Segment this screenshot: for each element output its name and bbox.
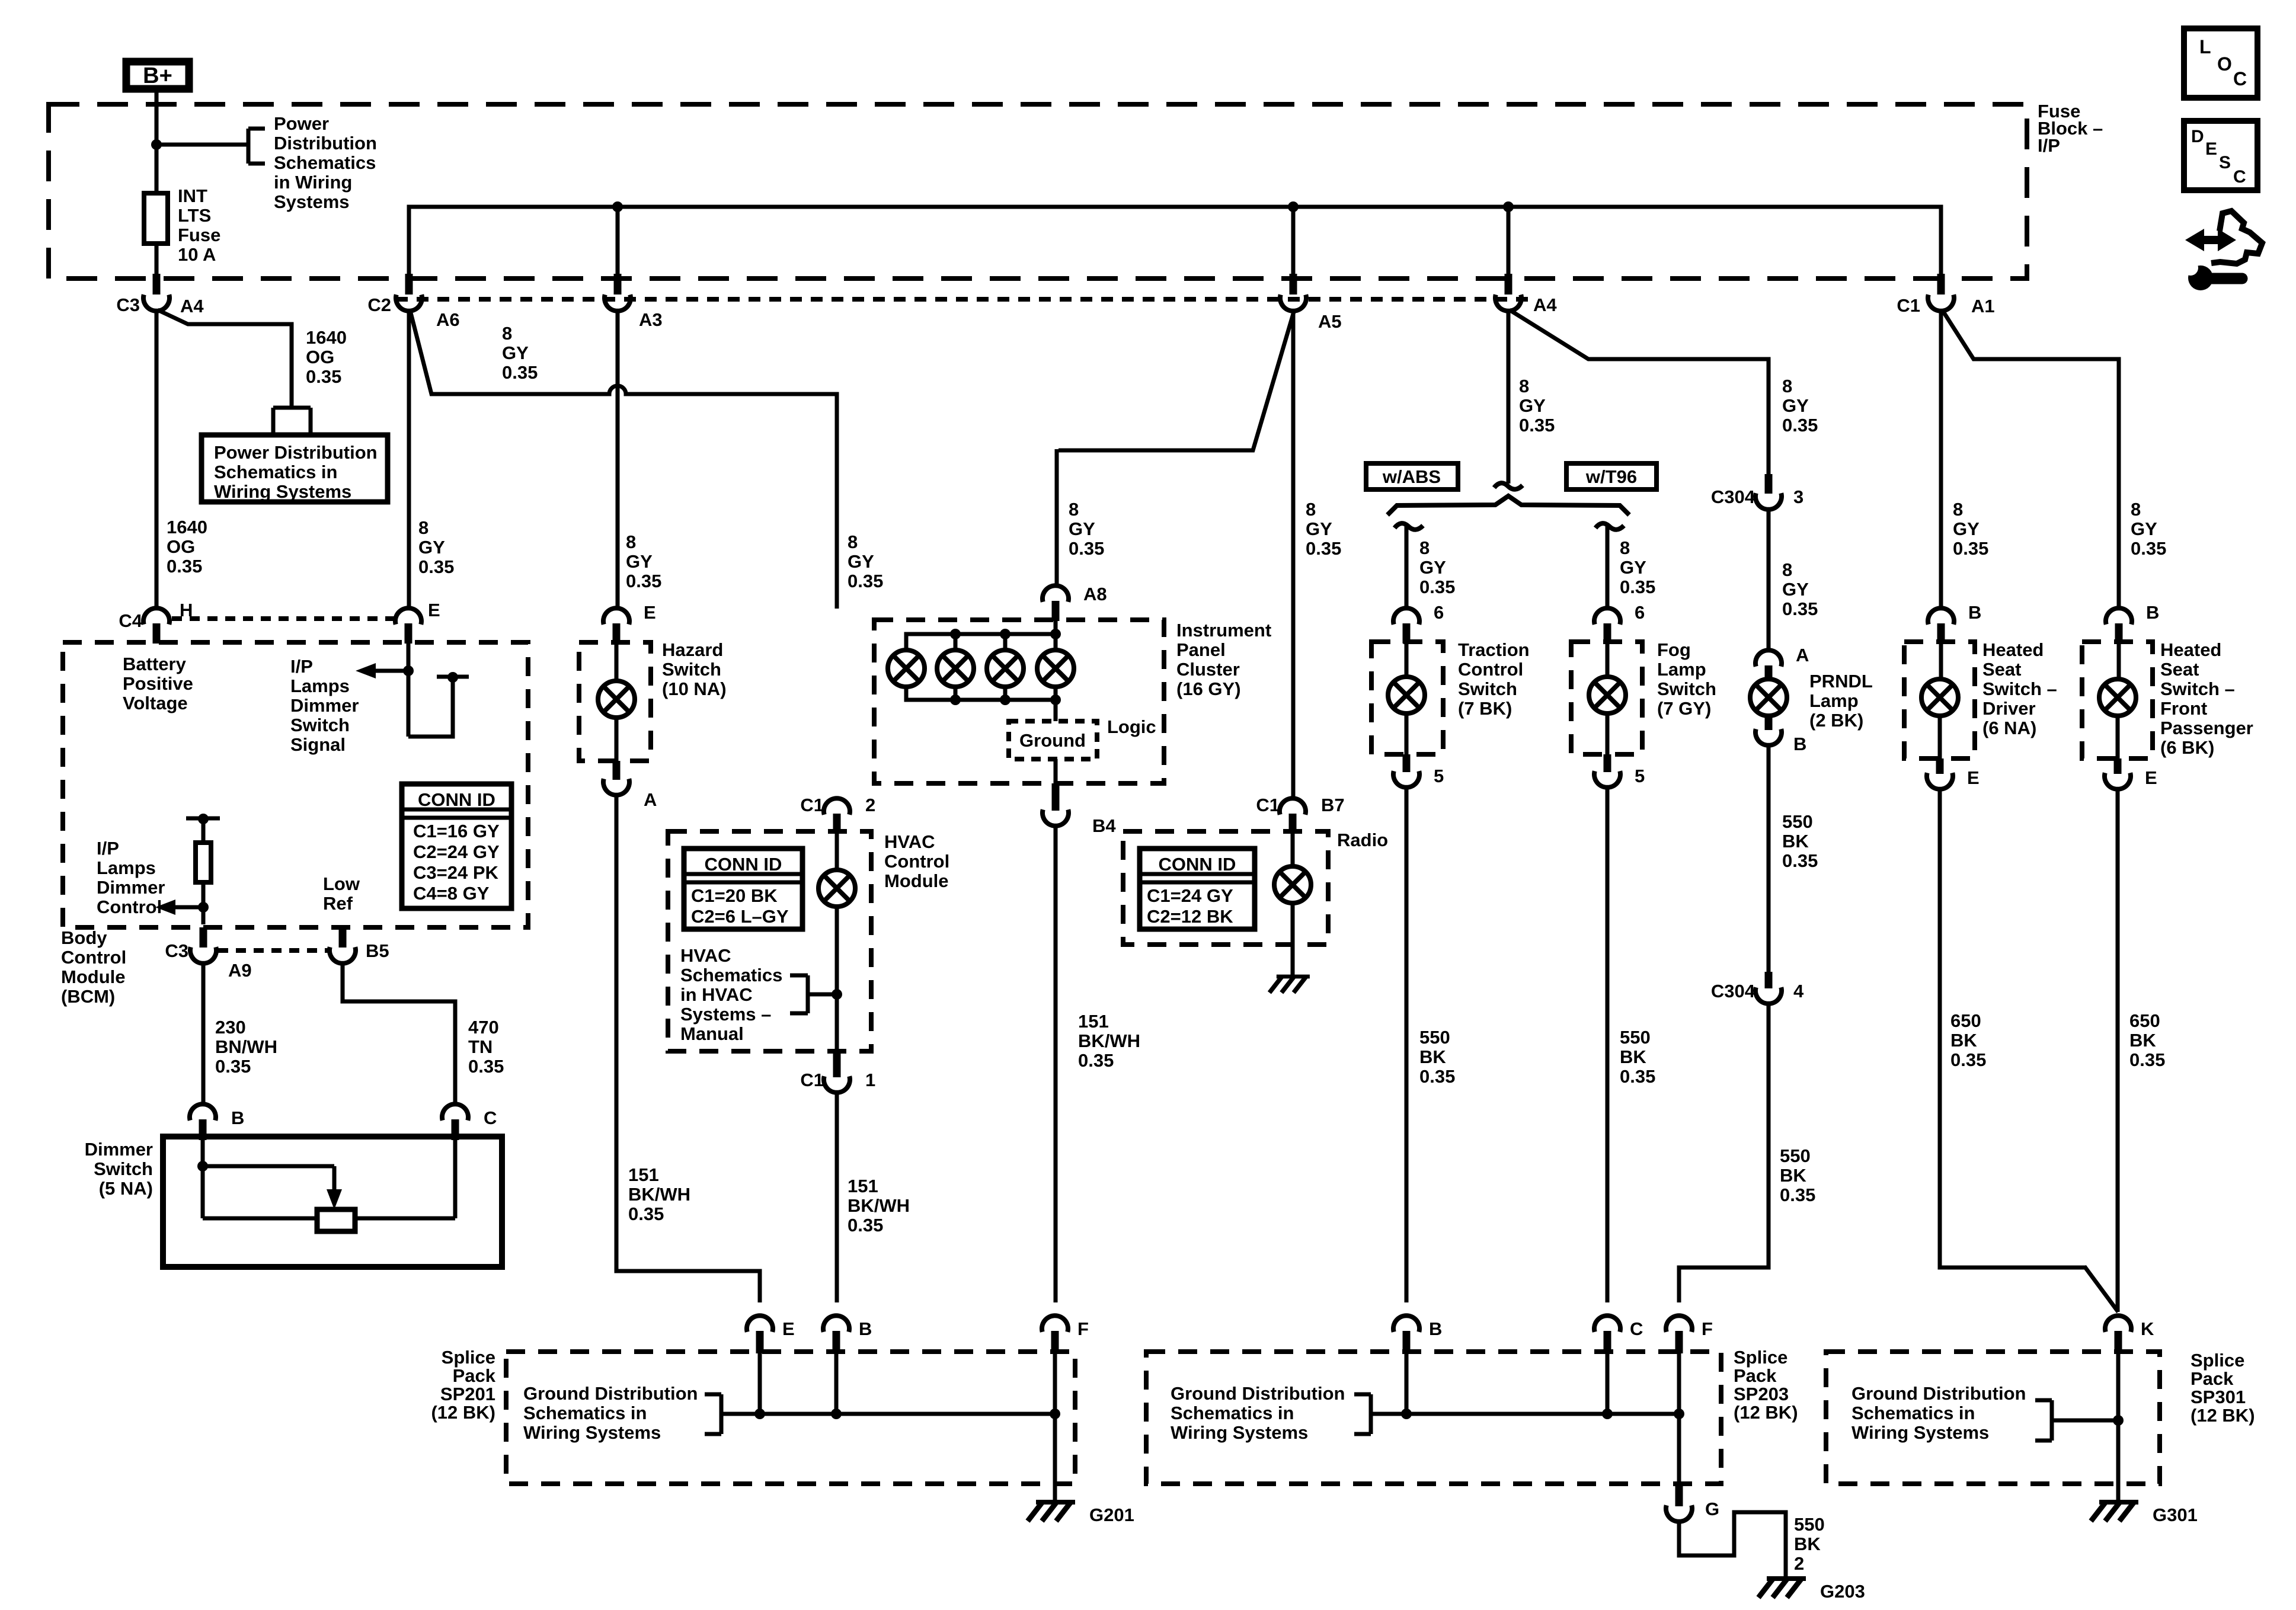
svg-text:B5: B5 [366,940,389,961]
wire A3 to hazard E (8 GY) [616,309,620,609]
svg-text:G201: G201 [1089,1505,1134,1525]
svg-text:OG: OG [306,347,334,367]
svg-text:0.35: 0.35 [626,571,661,591]
svg-text:6: 6 [1635,602,1645,623]
svg-text:BK: BK [1780,1165,1806,1186]
svg-text:Power: Power [274,113,329,134]
svg-text:Splice: Splice [442,1347,495,1368]
svg-text:(12 BK): (12 BK) [1734,1402,1798,1423]
svg-text:A6: A6 [436,309,460,330]
label 151 BK/WH 0.35 (HVAC) [848,1176,910,1235]
ground G203 [1758,1579,1865,1602]
svg-text:B: B [1968,602,1981,623]
label Ground Distribution Schematics in Wiring Systems (SP301) [1851,1383,2026,1443]
svg-text:0.35: 0.35 [1782,415,1818,436]
dimmer internal resistor path [203,1140,455,1231]
svg-text:8: 8 [2131,499,2141,520]
label 650 BK 0.35 (driver) [1950,1010,1986,1070]
svg-text:E: E [428,600,440,620]
svg-text:BK/WH: BK/WH [1078,1030,1140,1051]
wire fuse to C3 connector [155,244,159,277]
wire A4 branch to power distribution box [158,310,292,408]
svg-text:8: 8 [1519,376,1529,396]
svg-text:0.35: 0.35 [2129,1049,2165,1070]
label 8 GY 0.35 (A6 wire) [502,323,538,383]
label Heated Seat Switch Driver (6 NA) [1982,639,2057,738]
svg-text:HVAC: HVAC [680,945,731,966]
svg-text:Dimmer: Dimmer [290,695,359,716]
BCM internal wire from E [408,644,469,737]
battery feed B+ box [126,62,189,89]
svg-text:C304: C304 [1711,981,1755,1001]
svg-text:I/P: I/P [97,838,119,859]
svg-text:(7 GY): (7 GY) [1657,698,1711,719]
label 8 GY 0.35 (A4 wire) [1519,376,1555,436]
service icon wrench [2183,260,2242,290]
svg-text:Cluster: Cluster [1176,659,1240,680]
svg-text:Splice: Splice [2191,1350,2244,1371]
svg-text:0.35: 0.35 [1780,1185,1815,1205]
heated seat switch passenger dashed box [2082,642,2153,758]
svg-text:550: 550 [1780,1145,1811,1166]
svg-text:Ref: Ref [323,893,353,914]
svg-text:Lamp: Lamp [1657,659,1706,680]
svg-text:C304: C304 [1711,486,1755,507]
svg-text:(5 NA): (5 NA) [99,1178,153,1199]
label Battery Positive Voltage [123,654,193,713]
connector E (passenger seat) [2105,758,2157,789]
label Splice Pack SP201 (12 BK) [431,1347,495,1423]
wire bus to A5 [1291,207,1296,277]
svg-text:Fog: Fog [1657,639,1691,660]
svg-text:Heated: Heated [1982,639,2044,660]
svg-text:PRNDL: PRNDL [1809,671,1873,692]
svg-text:GY: GY [1620,557,1646,578]
svg-text:A1: A1 [1971,296,1995,316]
svg-text:0.35: 0.35 [1620,577,1655,597]
svg-text:C1: C1 [800,795,824,815]
IPC illumination lamp 2 [937,650,974,687]
svg-text:0.35: 0.35 [1519,415,1555,436]
connector C304/4 [1711,972,1804,1004]
svg-text:Wiring Systems: Wiring Systems [1171,1422,1308,1443]
wire B+ to fuse [151,89,162,193]
svg-text:Control: Control [1458,659,1523,680]
wire A1 to passenger B (8 GY) [1942,310,2119,609]
svg-text:8: 8 [1782,376,1792,396]
svg-text:0.35: 0.35 [468,1056,504,1077]
svg-text:0.35: 0.35 [1950,1049,1986,1070]
svg-text:Systems –: Systems – [680,1004,771,1025]
label Radio [1337,830,1388,850]
svg-text:1: 1 [865,1070,875,1090]
label Ground Distribution Schematics in Wiring Systems (SP203) [1171,1383,1345,1443]
wire SP201 F to G201 [1053,1353,1057,1502]
connector C1/A1 [1897,274,1994,316]
svg-text:E: E [782,1318,795,1339]
label 8 GY 0.35 (passenger) [2131,499,2166,559]
connector C3/A4 [116,274,204,316]
HVAC control module dashed box [668,831,871,1051]
IPC lamp bus top [906,620,1061,650]
connector K (SP301) [2105,1315,2154,1353]
svg-text:8: 8 [1306,499,1316,520]
svg-text:Switch: Switch [290,715,350,735]
svg-text:G: G [1705,1499,1719,1519]
wire HVAC C1/1 to SP201 B (151 BK/WH) [835,1090,839,1302]
svg-text:(6 NA): (6 NA) [1982,718,2036,738]
svg-text:F: F [1702,1318,1713,1339]
label Traction Control Switch (7 BK) [1458,639,1530,719]
svg-text:(10 NA): (10 NA) [662,678,727,699]
svg-text:Heated: Heated [2160,639,2221,660]
svg-text:B: B [231,1108,244,1128]
svg-text:8: 8 [1782,559,1792,580]
connector 6 (fog) [1594,602,1645,644]
svg-text:w/T96: w/T96 [1585,466,1637,487]
svg-text:SP203: SP203 [1734,1384,1789,1404]
wire bus to A4 [1507,207,1511,277]
svg-text:C3: C3 [165,940,188,961]
svg-text:in HVAC: in HVAC [680,984,753,1005]
svg-text:0.35: 0.35 [1419,577,1455,597]
label 8 GY 0.35 (C2-E wire) [418,517,454,577]
svg-text:Control: Control [61,947,126,968]
svg-text:Ground Distribution: Ground Distribution [523,1383,698,1404]
svg-text:0.35: 0.35 [848,571,883,591]
svg-text:C1=20 BK: C1=20 BK [691,885,778,906]
radio ground [1269,977,1310,993]
label I/P Lamps Dimmer Control [97,838,165,917]
SP301 bracket [2035,1400,2124,1441]
driver seat lamp [1921,644,1958,758]
svg-text:Systems: Systems [274,191,350,212]
svg-text:2: 2 [865,795,875,815]
svg-text:Driver: Driver [1982,698,2036,719]
label 8 GY 0.35 (ABS branch) [1419,537,1455,597]
radio lamp [1274,834,1311,975]
wire A4 stub with break tilde [1494,309,1523,489]
label Fog Lamp Switch (7 GY) [1657,639,1716,719]
svg-text:Seat: Seat [2160,659,2199,680]
label 1640 OG 0.35 (lower) [167,517,207,577]
arrow I/P lamps dimmer switch signal [356,663,414,678]
svg-text:GY: GY [1782,395,1809,416]
svg-text:Battery: Battery [123,654,187,674]
label Splice Pack SP203 (12 BK) [1734,1347,1798,1423]
svg-text:0.35: 0.35 [1953,538,1988,559]
svg-text:(12 BK): (12 BK) [2191,1405,2255,1426]
wire PRNDL B to C304-4 (550 BK) [1767,743,1771,972]
svg-text:Fuse: Fuse [178,225,220,245]
connector G (SP203) [1666,1499,1719,1522]
resistor I/P lamps dimmer control [186,814,220,924]
label 8 GY 0.35 (A3 wire) [626,532,661,591]
service icon outline [2211,211,2262,264]
fog lamp switch dashed box [1571,642,1642,754]
svg-text:SP201: SP201 [440,1384,495,1404]
svg-text:Schematics in: Schematics in [523,1403,647,1423]
svg-text:8: 8 [1069,499,1079,520]
svg-text:10 A: 10 A [178,244,216,265]
svg-text:Module: Module [61,966,126,987]
svg-text:C: C [2233,167,2246,187]
svg-text:C1: C1 [1897,295,1920,316]
connector F (SP201) [1042,1315,1089,1353]
svg-text:C2=12 BK: C2=12 BK [1147,906,1233,927]
label INT LTS Fuse 10 A [178,185,220,265]
wire fog to SP203 C (550 BK) [1606,785,1610,1302]
svg-text:Ground Distribution: Ground Distribution [1171,1383,1345,1404]
svg-text:0.35: 0.35 [2131,538,2166,559]
svg-text:Schematics in: Schematics in [1171,1403,1294,1423]
fuse block connector strip dashed line [396,297,1535,302]
wire C3 to C4 (1640 OG) [155,309,159,609]
label Dimmer Switch (5 NA) [85,1139,153,1199]
connector E (SP201) [747,1315,795,1353]
svg-text:151: 151 [1078,1011,1109,1032]
svg-text:Seat: Seat [1982,659,2021,680]
svg-text:A4: A4 [1533,295,1557,315]
svg-text:Control: Control [97,897,162,917]
svg-text:C2: C2 [367,295,391,315]
svg-text:1640: 1640 [306,327,347,348]
svg-text:1640: 1640 [167,517,207,537]
wire driver E to SP301 K (650 BK) [1940,787,2118,1312]
connector C1/B7 (radio) [1256,795,1344,834]
label Instrument Panel Cluster (16 GY) [1176,620,1271,699]
HVAC schematics bracket [790,975,842,1013]
svg-text:I/P: I/P [2038,135,2060,156]
svg-text:8: 8 [1620,537,1630,558]
SP201 ground bus [721,1353,1060,1419]
svg-text:Wiring Systems: Wiring Systems [1851,1422,1989,1443]
wire SP203 F to G connector [1677,1353,1681,1506]
dimmer internal wiper wire [197,1161,342,1209]
svg-text:5: 5 [1434,766,1444,786]
svg-text:E: E [2145,767,2157,788]
svg-text:G203: G203 [1820,1581,1865,1602]
connector C4/H [119,600,193,644]
svg-text:0.35: 0.35 [1306,538,1341,559]
label 8 GY 0.35 (PRNDL) [1782,559,1818,619]
svg-text:S: S [2219,153,2231,172]
HVAC conn id table [684,849,802,929]
svg-text:LTS: LTS [178,205,211,226]
svg-text:Switch: Switch [94,1158,153,1179]
splice pack SP301 dashed box [1826,1352,2160,1484]
svg-text:Schematics in: Schematics in [1851,1403,1975,1423]
svg-text:C2=6 L–GY: C2=6 L–GY [691,906,789,927]
label I/P Lamps Dimmer Switch Signal [290,656,359,755]
connector A5 [1280,274,1342,332]
svg-text:0.35: 0.35 [215,1056,251,1077]
svg-text:Pack: Pack [2191,1368,2234,1389]
svg-text:E: E [2205,139,2217,159]
svg-text:Lamps: Lamps [97,857,156,878]
label 1640 OG 0.35 (upper) [306,327,347,387]
wire C1/A1 to driver B (8 GY) [1939,309,1943,609]
connector C (dimmer) [442,1104,497,1140]
svg-text:I/P: I/P [290,656,313,677]
svg-text:A9: A9 [228,960,252,981]
svg-text:Module: Module [884,870,949,891]
svg-text:Switch –: Switch – [2160,678,2235,699]
svg-text:550: 550 [1794,1514,1825,1535]
wire junction to power distribution bracket [156,143,248,147]
svg-text:Control: Control [884,851,949,872]
svg-text:0.35: 0.35 [1782,850,1818,871]
wire ground box to B4 [1054,759,1058,783]
svg-text:E: E [1967,767,1980,788]
svg-text:BK: BK [1950,1030,1977,1051]
svg-text:BK: BK [2129,1030,2156,1051]
svg-text:Switch –: Switch – [1982,678,2057,699]
svg-text:C3: C3 [116,295,140,315]
svg-text:B4: B4 [1092,815,1116,836]
HVAC lamp [818,834,855,1051]
ground G301 [2091,1502,2198,1525]
hazard switch dashed box [579,642,651,761]
svg-text:Power Distribution: Power Distribution [214,442,378,463]
connector 5 (traction) [1393,754,1444,788]
svg-text:Switch: Switch [662,659,721,680]
label 8 GY 0.35 (A8 drop) [1069,499,1104,559]
service icon arrow [2185,229,2236,251]
splice pack SP201 dashed box [506,1352,1075,1484]
svg-text:TN: TN [468,1036,493,1057]
svg-text:GY: GY [1782,579,1809,600]
SP203 ground bus [1371,1353,1684,1419]
svg-text:SP301: SP301 [2191,1387,2246,1407]
splice pack SP203 dashed box [1146,1352,1721,1484]
svg-text:C4: C4 [119,610,142,631]
options brace [1387,496,1629,515]
svg-text:GY: GY [1419,557,1446,578]
w/ABS box [1366,463,1458,489]
svg-text:8: 8 [626,532,636,552]
svg-text:8: 8 [1953,499,1963,520]
svg-text:Positive: Positive [123,673,193,694]
wire C304-4 to SP203 F (550 BK) [1679,1001,1769,1302]
svg-text:C: C [484,1108,497,1128]
connector A4 (fuse block) [1495,274,1557,315]
connector C1/2 (HVAC) [800,795,875,834]
DESC reference box [2184,121,2257,190]
svg-text:BK: BK [1794,1534,1821,1554]
svg-text:B: B [1793,734,1806,754]
label 650 BK 0.35 (passenger) [2129,1010,2165,1070]
svg-text:Switch: Switch [1458,678,1517,699]
connector B (SP201) [823,1315,872,1353]
svg-text:(BCM): (BCM) [61,986,115,1007]
svg-text:0.35: 0.35 [1620,1066,1655,1087]
svg-text:GY: GY [2131,518,2157,539]
svg-text:Logic: Logic [1107,716,1156,737]
svg-text:G301: G301 [2153,1505,2198,1525]
svg-text:0.35: 0.35 [306,366,341,387]
svg-text:A5: A5 [1318,311,1342,332]
label 8 GY 0.35 (HVAC drop) [848,532,883,591]
svg-text:A: A [1796,645,1809,665]
svg-text:(6 BK): (6 BK) [2160,737,2214,758]
svg-text:8: 8 [848,532,858,552]
svg-text:HVAC: HVAC [884,831,935,852]
svg-text:0.35: 0.35 [628,1204,664,1224]
svg-text:E: E [644,602,656,623]
svg-text:Ground Distribution: Ground Distribution [1851,1383,2026,1404]
body control module dashed box [63,642,528,927]
svg-text:Low: Low [323,873,360,894]
label Fuse Block - I/P [2038,101,2103,156]
svg-text:Lamp: Lamp [1809,690,1859,711]
IPC illumination lamp 1 [888,650,925,687]
svg-text:GY: GY [418,537,445,558]
svg-text:B: B [859,1318,872,1339]
wire C304-3 to PRNDL A [1767,507,1771,649]
svg-text:CONN ID: CONN ID [418,789,495,810]
svg-text:Wiring Systems: Wiring Systems [523,1422,661,1443]
LOC reference box [2184,28,2257,98]
svg-text:0.35: 0.35 [848,1215,883,1235]
PRNDL lamp [1750,679,1787,716]
traction control switch dashed box [1371,642,1443,754]
svg-text:0.35: 0.35 [1078,1050,1114,1071]
connector B (SP203) [1393,1315,1442,1353]
svg-text:(16 GY): (16 GY) [1176,678,1241,699]
connector A (PRNDL) [1755,645,1809,681]
svg-text:Schematics in: Schematics in [214,462,337,482]
svg-text:K: K [2141,1318,2154,1339]
svg-text:w/ABS: w/ABS [1382,466,1441,487]
label 550 BK 0.35 (traction) [1419,1027,1455,1087]
connector B4 [1043,783,1116,836]
wire passenger E to SP301 K (650 BK) [2116,787,2120,1312]
svg-text:CONN ID: CONN ID [1159,854,1236,875]
svg-text:550: 550 [1419,1027,1450,1048]
label 550 BK 0.35 (to SP203) [1780,1145,1815,1205]
svg-text:Schematics: Schematics [274,152,376,173]
svg-text:L: L [2199,36,2211,57]
label 8 GY 0.35 (C304 wire) [1782,376,1818,436]
wire G to G203 (550 BK 2) [1679,1512,1786,1579]
IPC illumination lamp 3 [987,650,1024,687]
svg-text:6: 6 [1434,602,1444,623]
svg-text:151: 151 [628,1164,659,1185]
traction lamp [1388,644,1425,754]
svg-text:C1: C1 [1256,795,1280,815]
svg-text:B+: B+ [143,63,172,88]
SP203 bracket [1354,1394,1371,1434]
connector A (hazard) [603,761,657,810]
wire A5 to IPC A8 (8 GY) [1057,310,1294,585]
svg-text:Manual: Manual [680,1023,744,1044]
svg-text:A3: A3 [639,309,663,330]
svg-text:INT: INT [178,185,207,206]
svg-text:Voltage: Voltage [123,693,188,713]
svg-text:Dimmer: Dimmer [85,1139,153,1160]
svg-text:Body: Body [61,927,107,948]
hazard lamp [598,644,635,761]
svg-text:C: C [1630,1318,1643,1339]
label PRNDL Lamp (2 BK) [1809,671,1873,731]
connector E (driver seat) [1927,758,1980,789]
svg-text:A4: A4 [180,296,204,316]
svg-text:C: C [2233,68,2247,89]
svg-text:8: 8 [502,323,512,344]
heated seat switch driver dashed box [1904,642,1975,758]
dimmer switch box [163,1137,502,1267]
